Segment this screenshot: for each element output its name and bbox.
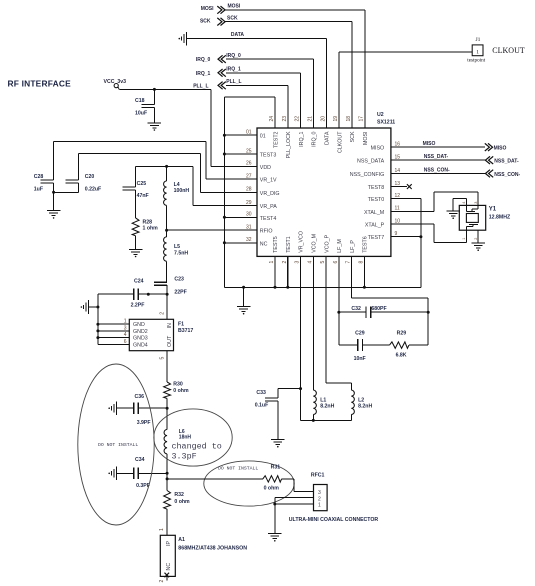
svg-text:4: 4 xyxy=(307,261,313,264)
svg-text:XTAL_M: XTAL_M xyxy=(364,210,384,216)
svg-text:TEST1: TEST1 xyxy=(286,236,292,253)
wire XTAL_P pin10 xyxy=(391,223,434,225)
svg-text:24: 24 xyxy=(269,116,275,122)
wire pin 32 NC xyxy=(224,242,257,244)
ground DATA (left) xyxy=(186,32,188,46)
svg-text:NC: NC xyxy=(166,563,172,571)
ellipse L6 changed xyxy=(154,409,232,466)
ground C33 xyxy=(271,439,285,441)
svg-text:DO NOT INSTALL: DO NOT INSTALL xyxy=(218,465,258,471)
svg-text:2: 2 xyxy=(282,261,288,264)
ground C28 xyxy=(53,192,55,210)
svg-text:NSS_CON-: NSS_CON- xyxy=(494,172,520,178)
ground C24 (left) xyxy=(88,300,90,314)
wire C24 left to gnd rail xyxy=(97,294,99,307)
svg-text:C29: C29 xyxy=(355,331,365,337)
svg-text:IP: IP xyxy=(166,541,172,546)
port NSS_CON- xyxy=(485,170,490,178)
svg-text:IRQ_0: IRQ_0 xyxy=(312,131,318,146)
svg-text:NSS_DATA: NSS_DATA xyxy=(357,159,385,165)
wire R31 to RFC1 pin3 xyxy=(282,478,295,480)
svg-text:22: 22 xyxy=(295,116,301,122)
svg-text:IRQ_0: IRQ_0 xyxy=(196,57,211,63)
wire MOSI xyxy=(225,9,365,11)
wire NSS_DAT pin15 xyxy=(391,159,486,161)
wire F1 IN stub xyxy=(166,294,168,319)
ground C18 xyxy=(148,122,162,124)
wire VR_PA rail xyxy=(136,165,193,167)
svg-text:0.1uF: 0.1uF xyxy=(255,403,269,409)
svg-text:18nH: 18nH xyxy=(179,435,192,441)
wire RFC1 pin1 xyxy=(275,503,314,505)
ground R28 xyxy=(135,236,137,250)
ellipse DO NOT INSTALL (R31) xyxy=(204,461,294,506)
filter F1 B3717 body xyxy=(129,319,173,350)
svg-text:1 ohm: 1 ohm xyxy=(143,226,159,232)
svg-text:IRQ_1: IRQ_1 xyxy=(196,71,211,77)
svg-text:R31: R31 xyxy=(271,465,281,471)
crystal Y1 package xyxy=(459,205,485,230)
svg-text:SCK: SCK xyxy=(227,15,238,21)
svg-text:1: 1 xyxy=(269,261,275,264)
svg-text:IRQ_1: IRQ_1 xyxy=(299,131,305,146)
svg-text:A1: A1 xyxy=(178,537,185,543)
svg-text:2.2PF: 2.2PF xyxy=(131,303,145,309)
svg-text:IN: IN xyxy=(167,323,173,328)
svg-text:C36: C36 xyxy=(135,394,145,400)
svg-text:19: 19 xyxy=(333,116,339,122)
svg-text:3: 3 xyxy=(295,261,301,264)
svg-text:LF_M: LF_M xyxy=(337,239,343,253)
svg-text:RF INTERFACE: RF INTERFACE xyxy=(8,79,72,89)
svg-text:C32: C32 xyxy=(351,306,361,312)
wire C28 to pin 27 VR_1V xyxy=(53,142,55,181)
wire pin6 LF_M xyxy=(338,256,340,345)
svg-text:2: 2 xyxy=(160,312,166,315)
svg-text:7.5nH: 7.5nH xyxy=(174,250,188,256)
wire IRQ_1 xyxy=(226,72,301,74)
svg-text:868MHZ/AT438 JOHANSON: 868MHZ/AT438 JOHANSON xyxy=(178,545,247,551)
svg-text:R29: R29 xyxy=(397,331,407,337)
node VR_VCO / C33 junction xyxy=(299,387,302,390)
svg-text:100nH: 100nH xyxy=(174,188,190,194)
svg-text:7: 7 xyxy=(346,261,352,264)
svg-text:3.3pF: 3.3pF xyxy=(172,451,197,461)
svg-text:changed to: changed to xyxy=(172,441,222,451)
wire crystal pin4 to ground xyxy=(465,198,467,205)
svg-text:20: 20 xyxy=(320,116,326,122)
wire pin8 TEST6 to gnd rail xyxy=(363,256,365,287)
wire R32 to antenna xyxy=(166,509,168,535)
svg-text:1uF: 1uF xyxy=(34,187,43,193)
ground crystal pin2 xyxy=(471,242,485,244)
svg-text:R32: R32 xyxy=(174,492,184,498)
svg-text:10uF: 10uF xyxy=(135,111,147,117)
svg-text:TEST6: TEST6 xyxy=(363,236,369,253)
svg-text:NSS_DAT-: NSS_DAT- xyxy=(494,159,519,165)
wire C24 to IN node xyxy=(98,293,134,295)
wire crystal pin2 to ground xyxy=(477,230,479,243)
wire R30 to C36 node xyxy=(166,399,168,430)
wire TEST8 pin13 no-connect xyxy=(391,186,407,188)
svg-text:3.9PF: 3.9PF xyxy=(137,420,151,426)
wire pin2 TEST1 to gnd rail xyxy=(287,256,289,287)
wire CLKOUT to J1 xyxy=(338,52,340,128)
svg-text:5: 5 xyxy=(320,261,326,264)
svg-text:VDD: VDD xyxy=(260,165,271,171)
svg-text:0 ohm: 0 ohm xyxy=(264,485,280,491)
svg-text:IRQ_0: IRQ_0 xyxy=(226,53,241,59)
svg-text:Y1: Y1 xyxy=(489,207,497,213)
svg-text:680PF: 680PF xyxy=(371,306,386,312)
wire MISO pin16 xyxy=(391,146,485,148)
wire pin1 TEST5 to gnd rail xyxy=(274,256,276,287)
svg-text:U2: U2 xyxy=(377,112,384,118)
port MISO xyxy=(485,143,490,151)
svg-text:0 ohm: 0 ohm xyxy=(174,499,190,505)
node RFIO junction xyxy=(165,229,168,232)
svg-text:22PF: 22PF xyxy=(174,289,186,295)
svg-text:C33: C33 xyxy=(256,390,266,396)
svg-text:3: 3 xyxy=(474,202,478,204)
svg-text:21: 21 xyxy=(308,116,314,122)
svg-text:PLL_L: PLL_L xyxy=(193,84,208,90)
svg-text:4: 4 xyxy=(124,332,127,338)
svg-text:C25: C25 xyxy=(137,181,147,187)
wire pin 25 TEST3 xyxy=(224,153,257,155)
wire F1 OUT stub xyxy=(166,351,168,382)
svg-text:GND: GND xyxy=(133,322,145,328)
ellipse DO NOT INSTALL (caps) xyxy=(78,364,154,525)
svg-text:XTAL_P: XTAL_P xyxy=(365,223,385,229)
wire pin5 VCO_P / inductor L2 xyxy=(325,256,327,383)
svg-text:VR_DIG: VR_DIG xyxy=(260,191,280,197)
svg-text:MISO: MISO xyxy=(494,146,507,152)
wire TEST0 pin12 xyxy=(391,198,421,200)
svg-text:testpoint: testpoint xyxy=(467,58,485,64)
wire RFC1 pin2 to ground xyxy=(275,496,314,498)
svg-text:47nF: 47nF xyxy=(137,193,149,199)
wire pin 01 xyxy=(224,134,257,136)
svg-text:01: 01 xyxy=(260,134,266,140)
svg-text:B3717: B3717 xyxy=(178,328,193,334)
svg-text:NSS_CON-: NSS_CON- xyxy=(424,168,450,174)
wire PLL_L xyxy=(226,84,288,86)
svg-text:DO NOT INSTALL: DO NOT INSTALL xyxy=(98,442,138,448)
svg-text:SCK: SCK xyxy=(350,131,356,142)
svg-text:RFC1: RFC1 xyxy=(311,472,325,478)
svg-text:2: 2 xyxy=(474,238,478,240)
svg-text:MOSI: MOSI xyxy=(201,6,214,12)
svg-text:ULTRA-MINI COAXIAL CONNECTOR: ULTRA-MINI COAXIAL CONNECTOR xyxy=(289,517,379,523)
svg-text:3: 3 xyxy=(124,325,127,331)
wire XTAL_M pin11 xyxy=(391,210,434,212)
svg-text:J1: J1 xyxy=(476,37,481,43)
svg-text:VCO_M: VCO_M xyxy=(312,234,318,253)
svg-text:MOSI: MOSI xyxy=(363,132,369,146)
svg-text:NC: NC xyxy=(260,241,268,247)
svg-text:L4: L4 xyxy=(174,182,180,188)
svg-text:OUT: OUT xyxy=(167,335,173,347)
wire C28 C20 bottoms xyxy=(54,191,79,193)
ground RFC1 xyxy=(268,533,282,535)
svg-text:8.2nH: 8.2nH xyxy=(358,404,372,410)
svg-text:CLKOUT: CLKOUT xyxy=(492,46,525,55)
crystal Y1 element xyxy=(477,205,479,209)
svg-text:5: 5 xyxy=(160,357,166,360)
svg-text:8.2nH: 8.2nH xyxy=(320,404,334,410)
svg-text:C34: C34 xyxy=(135,457,145,463)
svg-text:18: 18 xyxy=(346,116,352,122)
svg-text:VR_VCO: VR_VCO xyxy=(299,231,305,253)
svg-text:1: 1 xyxy=(159,528,165,531)
wire NSS_CON pin14 xyxy=(391,173,486,175)
wire VCC to pin 26 VDD xyxy=(118,87,120,89)
wire RFIO pin 31 xyxy=(167,229,257,231)
node R31 junction xyxy=(166,473,168,490)
wire pin 30 TEST4 xyxy=(224,216,257,218)
svg-text:RFIO: RFIO xyxy=(260,229,273,235)
svg-text:MOSI: MOSI xyxy=(228,4,241,10)
svg-text:DATA: DATA xyxy=(231,32,245,38)
svg-text:17: 17 xyxy=(359,116,365,122)
wire pin7 LF_P xyxy=(351,256,353,298)
svg-text:TEST7: TEST7 xyxy=(368,235,385,241)
svg-text:L5: L5 xyxy=(174,244,180,250)
svg-text:1: 1 xyxy=(124,319,127,325)
svg-text:0 ohm: 0 ohm xyxy=(173,388,189,394)
svg-text:8: 8 xyxy=(358,261,364,264)
svg-text:C28: C28 xyxy=(34,174,44,180)
svg-text:VR_1V: VR_1V xyxy=(260,178,277,184)
node F1 IN junction xyxy=(166,293,169,296)
svg-text:10nF: 10nF xyxy=(354,356,366,362)
wire SCK xyxy=(225,21,352,23)
svg-text:TEST5: TEST5 xyxy=(273,236,279,253)
svg-text:NSS_CONFIG: NSS_CONFIG xyxy=(350,172,384,178)
svg-text:CLKOUT: CLKOUT xyxy=(337,131,343,153)
svg-text:23: 23 xyxy=(282,116,288,122)
svg-text:SCK: SCK xyxy=(200,18,211,24)
svg-text:VCO_P: VCO_P xyxy=(324,234,330,252)
svg-text:LF_P: LF_P xyxy=(350,240,356,253)
svg-text:3: 3 xyxy=(318,490,321,496)
wire DATA xyxy=(187,38,327,40)
svg-text:2: 2 xyxy=(318,496,321,502)
svg-text:GND4: GND4 xyxy=(133,342,148,348)
wire IRQ_0 xyxy=(226,58,314,60)
svg-text:0.22uF: 0.22uF xyxy=(85,187,101,193)
svg-text:TEST3: TEST3 xyxy=(260,153,277,159)
svg-text:C24: C24 xyxy=(134,278,144,284)
svg-text:2: 2 xyxy=(159,580,165,583)
node C36 junction xyxy=(166,407,169,410)
svg-text:R30: R30 xyxy=(173,382,183,388)
ground C36 (left) xyxy=(115,401,117,415)
wire TEST2 pin24 to ground bus xyxy=(274,97,276,128)
svg-text:PLL_L: PLL_L xyxy=(226,79,241,85)
svg-text:C20: C20 xyxy=(85,174,95,180)
wire pin3 VR_VCO xyxy=(300,256,302,420)
ground crystal pin4 xyxy=(446,210,460,212)
svg-text:MISO: MISO xyxy=(423,141,436,147)
svg-text:VR_PA: VR_PA xyxy=(260,204,277,210)
node C34 junction xyxy=(166,472,169,475)
wire C20 to pin 28 VR_DIG xyxy=(78,154,80,180)
ground C34 (left) xyxy=(115,467,117,481)
svg-text:6: 6 xyxy=(333,261,339,264)
svg-text:IRQ_1: IRQ_1 xyxy=(226,67,241,73)
svg-text:MISO: MISO xyxy=(371,146,385,152)
svg-text:SX1211: SX1211 xyxy=(377,120,395,126)
wire R29 to pin7 rail xyxy=(409,344,428,346)
svg-text:R28: R28 xyxy=(143,219,153,225)
svg-text:1: 1 xyxy=(462,238,466,240)
svg-text:TEST2: TEST2 xyxy=(273,131,279,148)
svg-text:C18: C18 xyxy=(135,98,145,104)
wire F1 gnd pins rail xyxy=(97,307,99,344)
IC U2 SX1211 body xyxy=(257,128,391,256)
svg-text:NSS_DAT-: NSS_DAT- xyxy=(424,154,449,160)
svg-text:PLL_LOCK: PLL_LOCK xyxy=(286,131,292,158)
svg-text:1: 1 xyxy=(476,50,479,56)
svg-text:TEST4: TEST4 xyxy=(260,216,277,222)
svg-text:TEST0: TEST0 xyxy=(368,197,385,203)
svg-text:26: 26 xyxy=(246,161,252,167)
svg-text:6.8K: 6.8K xyxy=(396,353,407,359)
svg-text:GND2: GND2 xyxy=(133,329,148,335)
svg-text:4: 4 xyxy=(462,202,466,204)
svg-text:1: 1 xyxy=(318,503,321,509)
svg-text:DATA: DATA xyxy=(325,131,331,145)
wire TEST7 pin9 xyxy=(391,236,421,238)
svg-text:GND3: GND3 xyxy=(133,336,148,342)
svg-text:TEST8: TEST8 xyxy=(368,185,385,191)
ground rail symbol xyxy=(242,286,245,289)
svg-text:F1: F1 xyxy=(178,321,184,327)
svg-text:C23: C23 xyxy=(174,276,184,282)
wire ground rail below chip xyxy=(224,286,421,288)
svg-text:6: 6 xyxy=(124,339,127,345)
wire pin4 VCO_M / inductor L1 xyxy=(312,256,314,390)
svg-text:12.8MHZ: 12.8MHZ xyxy=(489,214,511,220)
port NSS_DAT- xyxy=(485,156,490,164)
wire L1 L2 bottom rail xyxy=(301,419,352,421)
